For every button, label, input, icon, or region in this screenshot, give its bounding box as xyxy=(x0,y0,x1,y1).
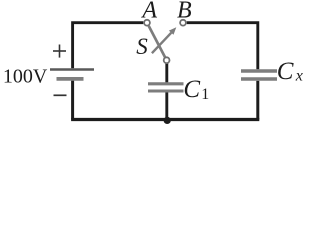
svg-text:100V: 100V xyxy=(3,66,48,88)
svg-text:x: x xyxy=(295,68,303,85)
svg-text:B: B xyxy=(177,0,192,24)
svg-text:1: 1 xyxy=(201,86,209,103)
svg-text:S: S xyxy=(136,34,148,59)
svg-text:C: C xyxy=(183,76,200,103)
svg-text:C: C xyxy=(277,58,294,85)
svg-text:A: A xyxy=(140,0,157,24)
